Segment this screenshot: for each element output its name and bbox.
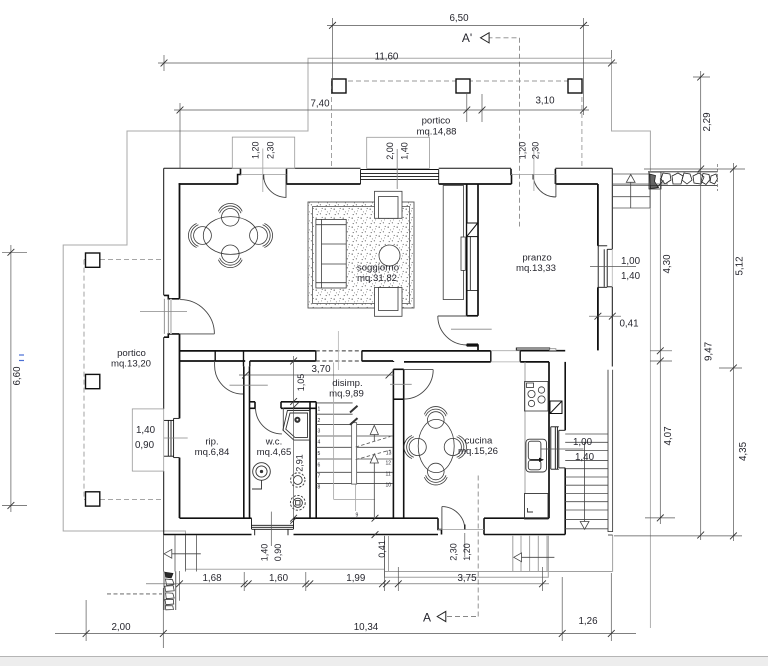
- roof eave outline top: [63, 58, 611, 569]
- svg-text:9: 9: [356, 513, 359, 519]
- door D1 swing arc: [264, 175, 287, 198]
- door D8 cucina leaf: [404, 369, 434, 371]
- armchair top: [375, 191, 403, 218]
- door D1 mullion: [263, 175, 265, 180]
- svg-text:cucina: cucina: [465, 436, 493, 447]
- svg-text:4: 4: [318, 440, 321, 446]
- svg-text:2,30: 2,30: [531, 142, 541, 160]
- svg-text:1,60: 1,60: [269, 573, 289, 584]
- terrace back porch: [385, 535, 613, 577]
- cabinet soggiorno east: [443, 186, 463, 300]
- dim chain 1,05 / 2,91: [293, 356, 295, 521]
- flue square pranzo wall: [467, 223, 478, 290]
- open passage pranzo-cucina thin faces: [491, 351, 520, 362]
- svg-text:12: 12: [386, 460, 392, 466]
- svg-text:mq.9,89: mq.9,89: [329, 389, 364, 400]
- door D6 wc leaf: [282, 408, 284, 431]
- spine wall top face: [180, 350, 566, 352]
- door D4 swing arc: [442, 507, 465, 530]
- svg-text:w.c.: w.c.: [265, 437, 283, 448]
- wall cucina left (disimp-cucina): [393, 361, 403, 518]
- door D8 swing arc: [404, 370, 434, 400]
- svg-text:soggiorno: soggiorno: [357, 263, 399, 274]
- svg-text:3,10: 3,10: [535, 96, 555, 107]
- chair S: [222, 245, 240, 263]
- radiator pranzo: [516, 348, 549, 350]
- carpet with dotted hatch: [308, 202, 414, 308]
- svg-text:1,00: 1,00: [621, 256, 641, 267]
- door D1 threshold: [241, 173, 287, 175]
- door D4 mullion: [464, 525, 466, 530]
- stair dashed section diagonals: [356, 437, 391, 460]
- svg-text:portico: portico: [117, 348, 146, 359]
- bottom chain witnesses: [179, 571, 181, 601]
- cucina window leader: [541, 448, 583, 450]
- door D6 swing arc: [256, 408, 282, 434]
- door D3 to left portico jambs: [164, 295, 180, 337]
- door D4 cucina bottom jambs: [438, 518, 484, 534]
- svg-text:13: 13: [386, 451, 392, 457]
- spine wall bottom face: [180, 360, 550, 363]
- door D2 swing arc: [533, 175, 556, 198]
- svg-text:4,30: 4,30: [662, 254, 673, 274]
- label box window W2 rip: [132, 409, 163, 471]
- door D2 mullion: [532, 175, 534, 180]
- kitchen counter edge: [524, 362, 526, 494]
- bottom scrollbar strip: [0, 656, 768, 666]
- bottom chain line: [146, 583, 549, 585]
- witness through D2: [533, 149, 535, 191]
- stair up arrow 1: [370, 425, 378, 441]
- svg-text:1,40: 1,40: [621, 271, 641, 282]
- svg-text:1,40: 1,40: [400, 142, 410, 160]
- door D5 swing arc: [215, 366, 243, 395]
- steps bottom-left outside: [164, 535, 197, 572]
- witness line centre of passage: [337, 331, 339, 370]
- svg-text:mq.13,33: mq.13,33: [516, 263, 556, 274]
- label box window W1: [367, 137, 430, 168]
- treads full width: [316, 424, 393, 426]
- door D5 rip opening in spine wall: [215, 351, 243, 361]
- svg-text:2,30: 2,30: [449, 543, 459, 561]
- door D7 soggiorno-pranzo leaf: [438, 315, 467, 317]
- wall rip-wc divider: [244, 366, 250, 518]
- treads upper flight short: [316, 402, 352, 404]
- stair cut marks: [350, 406, 358, 425]
- svg-text:5,12: 5,12: [735, 256, 746, 275]
- svg-text:mq.31,82: mq.31,82: [357, 273, 397, 284]
- svg-text:11: 11: [386, 472, 391, 478]
- fridge: [525, 494, 549, 520]
- svg-text:1: 1: [318, 407, 321, 413]
- entrance up arrow: [626, 175, 635, 209]
- dim line 6,50: [327, 24, 589, 26]
- sofa: [316, 219, 346, 288]
- dashed outline left portico: [84, 260, 164, 500]
- left wall outer face: [163, 168, 165, 535]
- svg-text:0,41: 0,41: [377, 540, 387, 558]
- chair E: [250, 227, 268, 245]
- niche in divider wall: [461, 237, 465, 270]
- bottom main line: [55, 633, 636, 635]
- window W3 wc bottom wall: [252, 518, 294, 535]
- svg-text:2,29: 2,29: [702, 112, 713, 131]
- svg-text:3,70: 3,70: [311, 364, 331, 375]
- section line A' top: [488, 38, 520, 227]
- svg-text:8: 8: [318, 484, 321, 490]
- spine wall end caps: [316, 351, 520, 362]
- boundary line right: [649, 187, 651, 628]
- coffee table: [379, 245, 400, 266]
- svg-text:11,60: 11,60: [375, 52, 399, 63]
- svg-text:5: 5: [318, 451, 321, 457]
- wc toilet: [291, 473, 305, 487]
- svg-text:1,20: 1,20: [518, 142, 528, 160]
- dim line 3,70: [239, 374, 394, 376]
- svg-text:rip.: rip.: [205, 437, 218, 448]
- svg-text:A': A': [462, 31, 472, 45]
- svg-text:1,05: 1,05: [296, 374, 306, 392]
- svg-text:mq.6,84: mq.6,84: [195, 447, 230, 458]
- stove: [525, 382, 549, 412]
- bottom wall inner face: [180, 517, 550, 519]
- wc window witness: [270, 512, 272, 546]
- wall soggiorno-pranzo divider: [467, 184, 478, 351]
- window W5 cucina right wall: [551, 427, 565, 469]
- svg-text:mq.13,20: mq.13,20: [111, 359, 151, 370]
- door D1 leaf: [285, 175, 287, 198]
- svg-text:4,07: 4,07: [663, 426, 674, 445]
- svg-text:1,40: 1,40: [260, 544, 270, 562]
- svg-text:7: 7: [318, 474, 321, 480]
- svg-text:2,00: 2,00: [111, 622, 131, 633]
- svg-text:2,30: 2,30: [266, 141, 276, 159]
- svg-text:mq.4,65: mq.4,65: [257, 447, 292, 458]
- section arrow A': [481, 33, 490, 43]
- dashed line bottom-left near rubble: [107, 593, 162, 595]
- top wall outer face: [164, 167, 613, 169]
- svg-text:portico: portico: [422, 116, 451, 127]
- door D2 leaf: [555, 175, 557, 198]
- svg-text:2,00: 2,00: [385, 142, 395, 160]
- door D5 rip jamb stubs: [244, 361, 250, 366]
- left wall inner face: [179, 183, 181, 518]
- kitchen table: [404, 407, 466, 485]
- dim 0,41 right: [589, 315, 621, 317]
- svg-text:0,90: 0,90: [135, 440, 155, 451]
- dim line 7,40 / 3,10: [174, 109, 589, 111]
- bottom main witnesses: [85, 600, 87, 641]
- svg-text:mq.15,26: mq.15,26: [458, 446, 498, 457]
- witness through D1: [262, 149, 264, 193]
- wc top wall: [250, 402, 317, 409]
- window W2 rip left wall: [164, 418, 180, 457]
- door D5 leaf: [214, 361, 216, 366]
- stair well faint outline: [334, 363, 375, 512]
- dining table soggiorno: [203, 217, 257, 255]
- svg-text:0,90: 0,90: [273, 544, 283, 562]
- svg-text:6,60: 6,60: [12, 366, 23, 386]
- right vertical chains: [700, 71, 702, 540]
- stair tread numbers: [318, 407, 392, 519]
- pranzo window leader: [590, 266, 636, 268]
- witness through W1: [396, 149, 398, 189]
- steps arrow bottom-left: [164, 549, 201, 558]
- rubble right end dashed: [717, 164, 719, 191]
- radiator small box: [550, 349, 556, 351]
- cucina right wall outer face: [564, 362, 566, 535]
- entrance steps top right: [612, 174, 650, 208]
- door D3 leaf: [180, 333, 214, 335]
- svg-text:2: 2: [318, 418, 321, 424]
- kitchen sink double bowl: [526, 439, 547, 472]
- door D2 pranzo top jambs: [511, 169, 555, 184]
- svg-text:6,50: 6,50: [449, 13, 469, 24]
- svg-text:1,68: 1,68: [202, 573, 222, 584]
- svg-text:3,75: 3,75: [457, 573, 477, 584]
- svg-text:mq.14,88: mq.14,88: [416, 127, 456, 138]
- wc sink vanity: [283, 411, 310, 441]
- svg-text:1,20: 1,20: [462, 543, 472, 561]
- door D2 threshold: [511, 173, 555, 175]
- svg-text:1,99: 1,99: [346, 573, 365, 584]
- svg-text:9,47: 9,47: [704, 342, 715, 361]
- stair handrail: [352, 423, 357, 485]
- door D4 threshold: [438, 528, 484, 530]
- roof eave outline right: [612, 58, 651, 171]
- window W4 pranzo right wall: [598, 246, 612, 287]
- svg-text:4,35: 4,35: [738, 441, 749, 461]
- door D7 swing arc: [438, 316, 467, 345]
- svg-text:1,40: 1,40: [575, 452, 595, 463]
- label box door D1: [232, 137, 294, 168]
- svg-text:2,91: 2,91: [295, 454, 305, 472]
- right wall pranzo inner face: [597, 184, 599, 350]
- right wall pranzo outer face: [611, 168, 613, 249]
- svg-text:1,40: 1,40: [136, 425, 156, 436]
- svg-text:pranzo: pranzo: [522, 253, 551, 264]
- svg-text:1,26: 1,26: [578, 616, 598, 627]
- blue marks left edge: [19, 355, 24, 361]
- door D3 threshold: [163, 299, 165, 334]
- svg-text:10: 10: [386, 482, 392, 488]
- svg-text:1,00: 1,00: [573, 437, 593, 448]
- svg-text:3: 3: [318, 429, 321, 435]
- svg-text:1,20: 1,20: [251, 141, 261, 159]
- svg-text:7,40: 7,40: [310, 99, 330, 110]
- wc bidet: [290, 495, 305, 510]
- svg-text:A: A: [423, 611, 431, 625]
- dim line 11,60: [158, 62, 617, 64]
- svg-text:0,41: 0,41: [619, 318, 638, 329]
- stair up arrow 2: [370, 454, 378, 517]
- cucina right wall inner face: [548, 362, 550, 518]
- bottom wall outer face: [164, 534, 566, 536]
- wall wc-disimp divider: [310, 402, 316, 518]
- svg-text:disimp.: disimp.: [332, 378, 362, 389]
- right extension lines: [693, 76, 710, 78]
- mystery thin lines crossing doors: [140, 312, 492, 439]
- armchair bottom: [375, 288, 403, 317]
- dim line 6,60 left: [10, 245, 12, 512]
- top wall inner face: [179, 183, 598, 185]
- window W1 soggiorno top: [361, 170, 439, 185]
- door D4 leaf: [441, 507, 443, 530]
- svg-text:6: 6: [318, 462, 321, 468]
- section line A bottom: [447, 475, 478, 617]
- svg-text:10,34: 10,34: [354, 622, 379, 633]
- open passage soggiorno-disimp dashed: [316, 351, 362, 361]
- dashed upper-floor outline over top portico: [332, 81, 582, 168]
- flue square cucina: [550, 401, 562, 414]
- door D3 swing arc: [180, 300, 214, 334]
- wc washing machine: [252, 463, 270, 489]
- external stair outer rail: [608, 370, 613, 535]
- external stair down arrow: [580, 442, 589, 529]
- chair N: [222, 209, 240, 227]
- cucina door witness: [464, 533, 466, 557]
- section arrow A: [437, 611, 446, 621]
- witness lines top: [332, 18, 334, 81]
- door D1 jambs top-left french door: [238, 169, 287, 184]
- chair W: [194, 227, 212, 245]
